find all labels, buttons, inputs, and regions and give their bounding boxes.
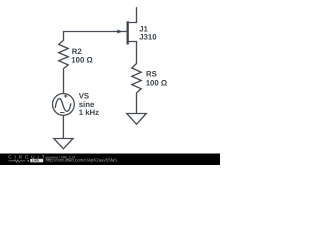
wire: J1 drain stub (up) [129, 7, 137, 22]
svg-text:RS: RS [146, 70, 157, 79]
ground (below RS) [127, 114, 147, 125]
resistor RS [132, 64, 141, 93]
svg-text:LAB: LAB [32, 159, 40, 163]
plus mark of VS [64, 94, 68, 98]
wire: R2 bottom to VS + terminal [63, 68, 65, 93]
wire: R2 top up and right to gate of J1 [64, 32, 127, 41]
svg-text:J310: J310 [139, 33, 157, 42]
transistor J1 channel bar [127, 21, 129, 44]
ground (below VS) [54, 139, 73, 149]
voltage source VS (sine) [53, 94, 75, 116]
sine wave glyph of VS [55, 99, 71, 112]
wire: J1 source lead down to RS [129, 42, 137, 64]
gate arrow of J1 (N-JFET) [117, 29, 122, 33]
CircuitLab logo wire zigzag [9, 160, 26, 162]
svg-text:1 kHz: 1 kHz [79, 108, 99, 117]
watermark bar [0, 154, 220, 166]
svg-text:100 Ω: 100 Ω [146, 79, 167, 88]
svg-text:100 Ω: 100 Ω [71, 56, 92, 65]
CircuitLab logo node dot [27, 160, 29, 162]
wire: RS bottom to ground [136, 93, 138, 114]
wire: VS - terminal to ground [62, 115, 64, 138]
resistor R2 [59, 40, 68, 68]
svg-text:http://circuitlab.com/c/ApK2aa: http://circuitlab.com/c/ApK2aav55fa5 [46, 158, 118, 163]
minus mark of VS [60, 112, 64, 114]
CircuitLab logo LAB box [30, 159, 43, 163]
